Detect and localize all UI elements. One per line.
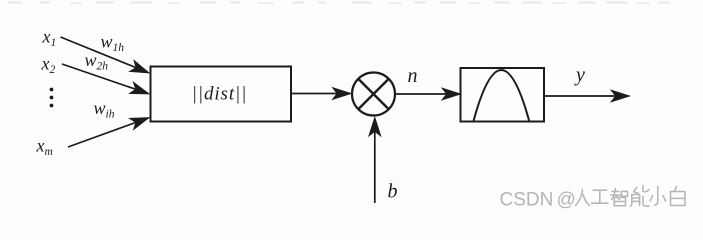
wire dist to multiplier [291, 93, 350, 95]
gaussian curve [474, 70, 530, 121]
svg-text:n: n [408, 65, 418, 87]
svg-text:b: b [388, 181, 398, 203]
wire multiplier to transfer box [396, 93, 460, 95]
svg-text:CSDN: CSDN [500, 190, 554, 211]
svg-text:y: y [574, 64, 585, 86]
output wire y [544, 95, 629, 97]
multiplier node [352, 73, 395, 116]
wire x1 to dist box [61, 37, 149, 73]
白 [671, 187, 686, 206]
小 [650, 187, 665, 206]
bias wire b [374, 119, 376, 204]
faint scan smudges top [8, 1, 670, 4]
人 [576, 190, 590, 206]
智 [611, 189, 628, 206]
wire xm to dist box [68, 118, 148, 147]
watermark CJK 人工智能小白 [576, 186, 686, 206]
vertical ellipsis [50, 88, 54, 108]
transfer function box U2 [461, 68, 545, 122]
svg-text:@: @ [557, 190, 576, 211]
工 [592, 190, 609, 203]
svg-text:||dist||: ||dist|| [192, 84, 248, 105]
dist box U1 [151, 67, 292, 122]
wire x2 to dist box [62, 64, 148, 94]
能 [630, 186, 649, 206]
